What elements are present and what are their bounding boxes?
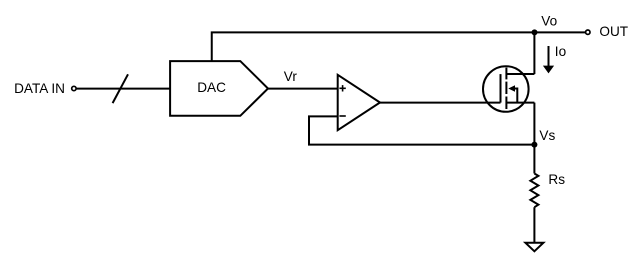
wire DAC top to rail	[212, 32, 585, 61]
DAC block	[170, 61, 268, 116]
MOSFET gate bar	[500, 74, 502, 103]
svg-text:Io: Io	[555, 44, 566, 59]
current arrow Io	[543, 46, 554, 73]
op-amp plus sign	[339, 85, 345, 91]
op-amp U1	[338, 75, 380, 130]
node Vs junction	[531, 142, 537, 148]
resistor Rs	[530, 145, 538, 243]
svg-text:DATA IN: DATA IN	[14, 81, 65, 96]
wire feedback: Vs to op-amp inverting input	[309, 116, 534, 144]
node Vo junction	[532, 29, 538, 35]
bus slash	[113, 74, 128, 103]
svg-text:Vo: Vo	[541, 13, 557, 28]
svg-text:Vr: Vr	[284, 69, 298, 84]
MOSFET channel segment drain	[505, 68, 507, 80]
svg-text:Rs: Rs	[548, 172, 565, 187]
MOSFET channel segment bulk	[505, 82, 507, 94]
ground	[525, 243, 543, 252]
MOSFET M1 body circle	[483, 66, 529, 112]
terminal OUT	[586, 30, 590, 34]
MOSFET drain tap	[506, 73, 534, 75]
MOSFET channel segment source	[505, 97, 507, 110]
terminal DATA IN	[72, 86, 76, 90]
wire drain to Vo	[533, 32, 535, 74]
wire DATA IN to DAC	[76, 88, 170, 90]
wire source to Vs	[533, 103, 535, 145]
svg-text:DAC: DAC	[197, 80, 226, 95]
wire Vr: DAC output to op-amp	[268, 88, 338, 90]
MOSFET source tap	[506, 102, 534, 104]
wire op-amp output to gate	[380, 102, 501, 104]
svg-text:Vs: Vs	[539, 128, 555, 143]
MOSFET bulk arrow	[508, 85, 517, 102]
svg-text:OUT: OUT	[599, 24, 628, 39]
op-amp minus sign	[339, 115, 345, 117]
